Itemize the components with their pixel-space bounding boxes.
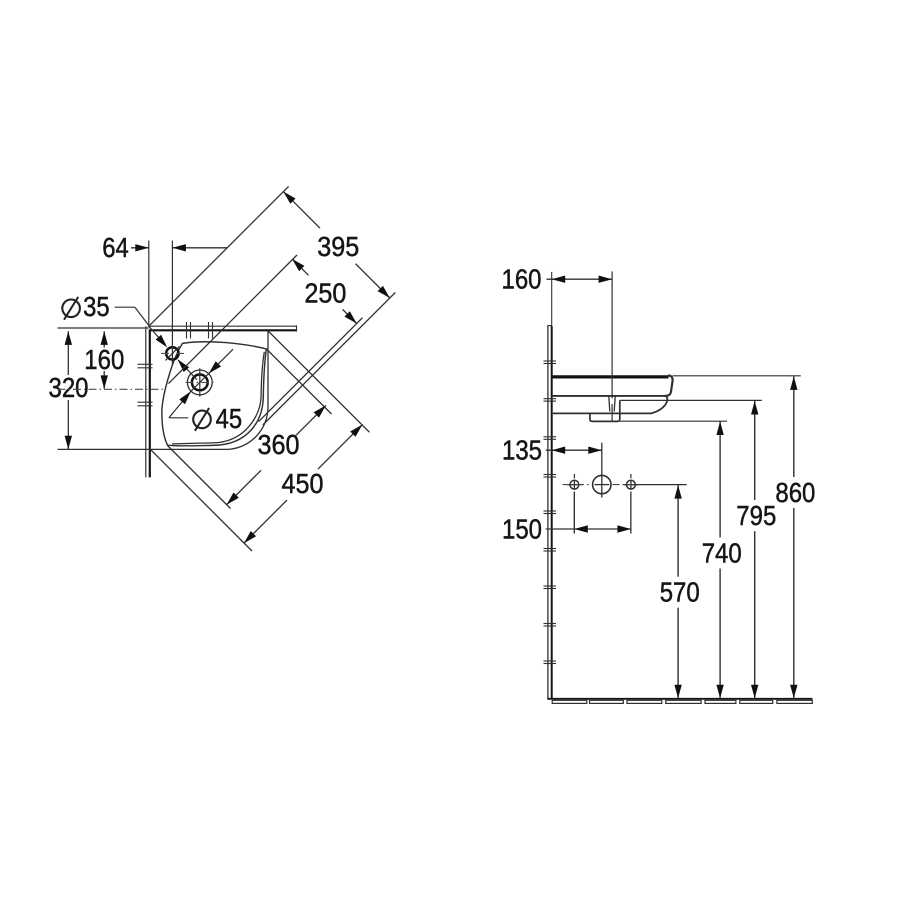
svg-text:150: 150 xyxy=(502,514,542,545)
svg-text:45: 45 xyxy=(216,403,243,434)
svg-text:160: 160 xyxy=(502,264,542,295)
svg-text:395: 395 xyxy=(317,231,359,262)
svg-text:740: 740 xyxy=(702,538,742,569)
svg-text:250: 250 xyxy=(304,278,346,309)
svg-text:135: 135 xyxy=(502,435,542,466)
svg-text:860: 860 xyxy=(775,477,815,508)
svg-text:570: 570 xyxy=(660,577,700,608)
svg-text:320: 320 xyxy=(49,372,89,403)
svg-text:35: 35 xyxy=(83,291,110,322)
svg-text:360: 360 xyxy=(258,429,300,460)
svg-text:795: 795 xyxy=(736,500,776,531)
svg-text:450: 450 xyxy=(282,468,324,499)
svg-text:160: 160 xyxy=(84,344,124,375)
svg-text:64: 64 xyxy=(102,232,129,263)
